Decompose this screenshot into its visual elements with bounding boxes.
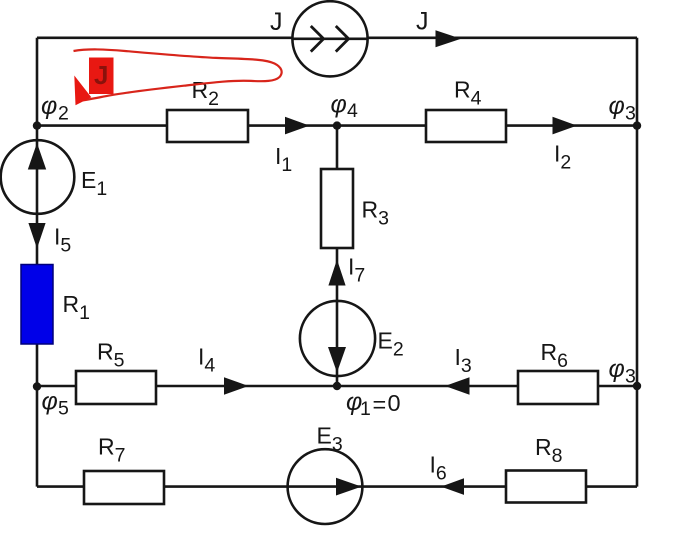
resistor R6 (518, 371, 598, 404)
svg-text:φ: φ (41, 92, 57, 120)
svg-text:3: 3 (625, 103, 636, 125)
node phi1 (333, 382, 341, 390)
resistor R3 (vertical) (321, 169, 353, 248)
svg-text:3: 3 (625, 366, 636, 388)
red annotation: lasso scribble (74, 49, 282, 100)
arrow I3 (445, 377, 470, 395)
resistor R8 (506, 471, 586, 503)
arrow I1 (285, 117, 310, 135)
svg-text:I2: I2 (554, 141, 571, 174)
svg-text:J: J (94, 60, 108, 90)
arrow I5 on left rail (28, 223, 45, 249)
svg-text:R4: R4 (454, 77, 482, 110)
svg-text:2: 2 (58, 103, 69, 125)
svg-text:I3: I3 (455, 344, 472, 377)
resistor R1 (blue) (21, 265, 53, 345)
node phi4 (333, 121, 341, 129)
svg-text:φ: φ (331, 91, 347, 119)
svg-text:R6: R6 (541, 339, 568, 372)
svg-text:5: 5 (58, 398, 69, 420)
svg-text:J: J (270, 8, 283, 36)
svg-text:R1: R1 (63, 291, 90, 324)
svg-text:0: 0 (388, 390, 401, 416)
voltage source E2 (circle with down arrow) (300, 301, 375, 376)
svg-text:φ: φ (42, 388, 58, 416)
wire: middle vertical phi4 to phi1 (336, 126, 339, 386)
svg-text:I6: I6 (430, 452, 447, 485)
arrow I6 (441, 478, 464, 495)
wire: right vertical rail (636, 38, 639, 487)
arrow I4 (224, 377, 249, 395)
node phi3 top (633, 121, 641, 129)
svg-text:R8: R8 (535, 434, 562, 467)
arrow I2 (553, 117, 578, 135)
resistor R7 (84, 471, 164, 504)
svg-text:E2: E2 (378, 328, 404, 361)
svg-text:=: = (373, 391, 387, 417)
svg-text:R3: R3 (362, 197, 389, 230)
red annotation: J box (89, 58, 114, 95)
current source J (circle with double chevron) (292, 1, 367, 76)
svg-text:4: 4 (347, 100, 358, 122)
arrow I7 (328, 260, 345, 286)
svg-text:I1: I1 (275, 143, 292, 176)
wire: third row horizontal phi5-phi1-phi3 (37, 385, 637, 388)
voltage source E3 (circle with right arrow) (288, 449, 363, 524)
arrow J on top wire (436, 30, 462, 47)
svg-text:I5: I5 (54, 224, 71, 257)
wire: bottom horizontal (37, 485, 637, 488)
svg-text:φ: φ (609, 355, 625, 383)
wire: top horizontal (phi2 top corner to phi3 top corner) (37, 36, 637, 39)
svg-text:1: 1 (360, 398, 371, 420)
node phi5 (33, 382, 41, 390)
resistor R5 (76, 371, 156, 404)
svg-text:E1: E1 (81, 167, 107, 200)
svg-text:R7: R7 (98, 434, 125, 467)
red annotation: cursor triangle (74, 76, 91, 106)
node phi2 (33, 121, 41, 129)
svg-text:φ: φ (609, 92, 625, 120)
wire: left vertical rail (36, 38, 39, 487)
node phi3 bottom (633, 382, 641, 390)
svg-text:I4: I4 (198, 344, 215, 377)
resistor R2 (167, 110, 248, 142)
wire: second row horizontal phi2-phi4-phi3 (37, 124, 637, 127)
svg-text:I7: I7 (348, 254, 365, 287)
voltage source E1 (circle with up arrow) (1, 140, 75, 214)
resistor R4 (426, 110, 506, 142)
svg-text:R5: R5 (97, 339, 125, 372)
svg-text:J: J (416, 8, 429, 36)
